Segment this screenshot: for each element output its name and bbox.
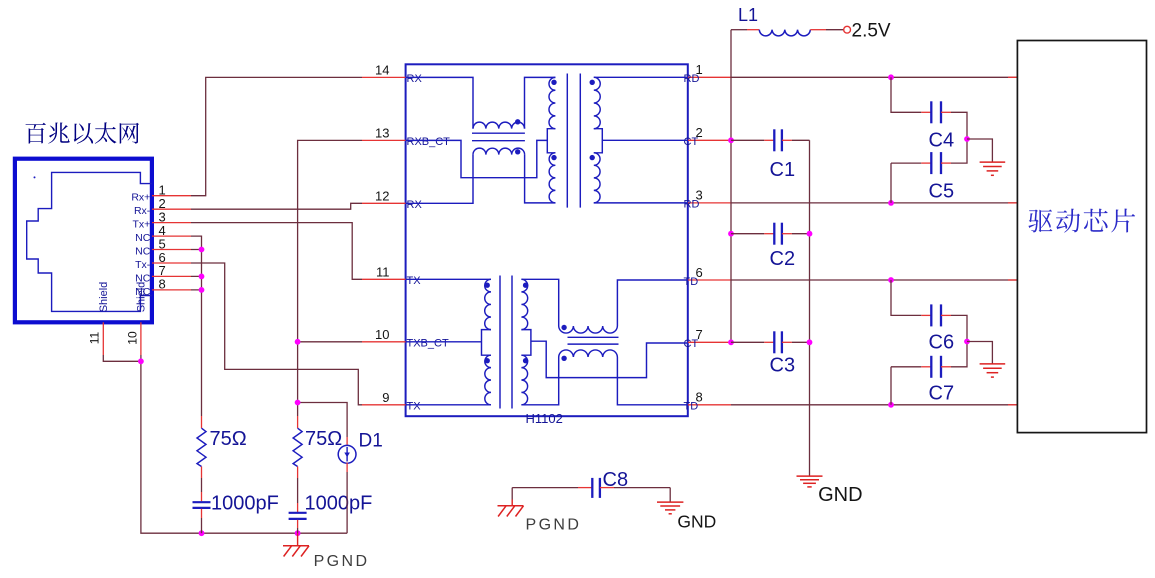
svg-text:NC: NC — [135, 246, 151, 258]
ground symbol GND right — [669, 488, 671, 503]
T1 top secondary winding right — [594, 76, 688, 78]
power ground symbol PGND left — [297, 533, 299, 546]
wire net Tx- J1.6 to T1.9 — [191, 263, 362, 405]
svg-text:75Ω: 75Ω — [210, 428, 247, 450]
J1 pin number labels 1-8 — [159, 183, 166, 292]
T1 RX choke polarity dots — [515, 119, 520, 124]
node NC rail junctions — [199, 247, 205, 253]
node RD3 junction — [888, 200, 894, 206]
wire net TD6 T1.6 to U1 — [731, 279, 1017, 281]
T1 pin numbers left — [375, 62, 389, 404]
T1 bottom secondary winding — [521, 279, 527, 329]
svg-text:1000pF: 1000pF — [211, 493, 279, 515]
svg-text:Rx+: Rx+ — [131, 192, 150, 204]
svg-text:14: 14 — [375, 62, 389, 77]
T1 RXB_CT tap wire pin13 — [406, 140, 548, 177]
svg-text:Shield: Shield — [98, 282, 110, 313]
svg-text:75Ω: 75Ω — [305, 428, 342, 450]
wire L1 to center taps — [730, 30, 732, 343]
T1 bottom primary polarity dots — [485, 283, 490, 288]
node shield junction — [138, 358, 144, 364]
ground symbol at C6 C7 — [980, 364, 1006, 377]
wire net Tx+ J1.3 to T1.11 — [191, 223, 362, 280]
T1 pin stubs left 14 13 12 11 10 9 — [362, 77, 406, 404]
capacitor C6 — [891, 280, 921, 315]
inductor L1 — [731, 29, 747, 31]
svg-text:GND: GND — [818, 484, 862, 506]
svg-text:Shield: Shield — [135, 282, 147, 313]
node TD8 junction — [888, 402, 894, 408]
T1 RX choke lower winding (pin12 path) — [406, 155, 473, 204]
wire D1 bottom to PGND rail — [346, 472, 348, 533]
wire C4/C5 mid to ground — [967, 139, 992, 162]
T1 bottom secondary polarity dots — [523, 283, 528, 288]
wire branch to D1 — [298, 403, 348, 438]
svg-text:C2: C2 — [770, 248, 796, 270]
wire net RD1 T1.1 to U1 — [731, 76, 1017, 78]
svg-text:11: 11 — [376, 264, 390, 279]
svg-text:C4: C4 — [929, 130, 955, 152]
capacitor C4 — [891, 77, 921, 112]
node TD6 junction — [888, 277, 894, 283]
wire net TD8 T1.8 to U1 — [731, 404, 1017, 406]
svg-text:C8: C8 — [603, 469, 629, 491]
node C2 C3 right junctions — [807, 231, 813, 237]
node C6 C7 mid junction — [964, 339, 970, 345]
svg-text:11: 11 — [87, 331, 101, 344]
svg-text:2.5V: 2.5V — [852, 21, 891, 42]
ground symbol GND center — [797, 476, 823, 487]
resistor R2 75R — [297, 416, 299, 428]
driver chip U1 box (驱动芯片) — [1017, 41, 1146, 433]
wire net Rx+ J1.1 to T1.14 — [191, 77, 362, 195]
T1 pin stubs right 1 2 3 6 7 8 — [688, 77, 731, 405]
svg-text:PGND: PGND — [526, 517, 582, 534]
T1 TD choke lower winding — [521, 357, 558, 405]
svg-text:L1: L1 — [738, 5, 758, 25]
U1 pin tips — [1008, 77, 1017, 405]
svg-text:NC: NC — [135, 232, 151, 244]
svg-text:RX: RX — [407, 73, 423, 85]
svg-text:TD: TD — [684, 276, 699, 288]
node CT junctions on L1 rail — [728, 137, 734, 143]
svg-text:9: 9 — [382, 390, 389, 405]
T1 bottom primary winding left (pins 11 9 10) — [406, 278, 491, 280]
transformer T1 H1102 box — [406, 64, 688, 416]
capacitor C3 — [731, 341, 764, 343]
capacitor C2 — [731, 233, 764, 235]
T1 pin numbers right — [696, 62, 703, 405]
svg-text:C1: C1 — [770, 159, 796, 181]
capacitor C7 — [891, 367, 921, 405]
svg-text:Tx+: Tx+ — [133, 219, 151, 231]
node RD1 junction — [888, 74, 894, 80]
title text 百兆以太网 — [26, 122, 139, 143]
capacitor C1 — [731, 139, 764, 141]
svg-text:RXB_CT: RXB_CT — [407, 136, 451, 148]
T1 RX choke core — [472, 133, 525, 141]
svg-text:PGND: PGND — [314, 553, 370, 570]
wire shield net to PGND rail — [103, 355, 347, 533]
svg-text:1000pF: 1000pF — [305, 493, 373, 515]
T1 top secondary polarity dots — [590, 80, 595, 85]
T1 pin names left RX RXB_CT RX TX TXB_CT TX — [407, 73, 451, 412]
wire C1-C3 common rail to GND — [809, 140, 811, 476]
node PGND rail junctions — [199, 530, 205, 536]
svg-text:D1: D1 — [359, 431, 383, 452]
svg-text:TXB_CT: TXB_CT — [407, 338, 449, 350]
wire net Rx- J1.2 to T1.12 — [191, 203, 362, 209]
T1 TD choke core — [568, 337, 619, 344]
T1 top secondary CT tap to pin2 — [602, 139, 688, 141]
svg-text:RX: RX — [407, 199, 423, 211]
svg-text:C6: C6 — [929, 332, 955, 354]
T1 bottom CT tap to pin7 — [531, 341, 688, 377]
capacitor CT2 1000pF — [297, 478, 299, 503]
svg-text:10: 10 — [125, 331, 139, 345]
T1 top transformer core — [567, 74, 580, 208]
svg-text:13: 13 — [375, 125, 389, 140]
T1 RX choke upper winding (pin14 path) — [406, 77, 473, 128]
svg-text:TX: TX — [407, 275, 422, 287]
svg-text:12: 12 — [375, 188, 389, 203]
resistor R1 75R — [201, 416, 203, 428]
svg-text:C7: C7 — [929, 383, 955, 405]
wire NC rail J1.4/5/7/8 down to R1 — [191, 236, 202, 416]
RJ45 connector J1 box (百兆以太网) — [15, 159, 152, 323]
J1 shield pins 11 and 10 — [102, 322, 104, 355]
svg-text:RD: RD — [684, 73, 700, 85]
wire net CT rail T1.13 to T1.10 down to R2 — [298, 140, 362, 416]
svg-text:TX: TX — [407, 401, 422, 413]
T1 bottom transformer core — [500, 276, 512, 409]
power ground symbol PGND right — [511, 488, 513, 500]
wire net RD3 T1.3 to U1 — [731, 202, 1017, 204]
svg-text:Rx-: Rx- — [134, 205, 151, 217]
T1 TD choke polarity dots — [561, 325, 566, 330]
svg-text:CT: CT — [684, 338, 699, 350]
svg-text:C5: C5 — [929, 181, 955, 203]
svg-text:RD: RD — [684, 199, 700, 211]
T1 top primary winding left — [549, 77, 555, 128]
T1 top primary polarity dots — [551, 80, 556, 85]
svg-text:CT: CT — [684, 136, 699, 148]
U1 label 驱动芯片 — [1028, 209, 1135, 233]
T1 pin names right RD CT RD TD CT TD — [684, 73, 700, 413]
svg-text:Tx-: Tx- — [135, 259, 151, 271]
wire C6/C7 mid to ground — [967, 342, 992, 364]
svg-text:GND: GND — [677, 511, 716, 531]
svg-text:C3: C3 — [770, 355, 796, 377]
T1 TXB_CT tap wire pin10 — [406, 341, 482, 343]
RJ45 jack outline — [27, 172, 152, 311]
capacitor C8 — [512, 487, 578, 489]
diode D1 — [346, 437, 348, 446]
svg-text:H1102: H1102 — [526, 411, 563, 426]
T1 TD choke upper winding — [521, 279, 558, 326]
node C4 C5 mid junction — [964, 136, 970, 142]
node CT rail junctions — [295, 339, 301, 345]
svg-text:10: 10 — [375, 327, 389, 342]
capacitor CT1 1000pF — [201, 478, 203, 492]
ground symbol at C4 C5 — [980, 162, 1006, 175]
capacitor C5 — [891, 163, 921, 203]
J1 pin name labels Rx+ Rx- Tx+ NC NC Tx- NC NC — [131, 192, 150, 298]
svg-text:TD: TD — [684, 401, 699, 413]
power terminal 2.5V — [844, 26, 851, 33]
J1 pins 1-8 red stubs — [152, 196, 191, 290]
